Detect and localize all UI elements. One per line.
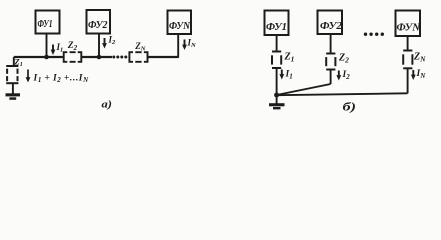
svg-text:I1: I1 [56, 42, 64, 54]
current arrow I1 (circuit b) [279, 70, 284, 80]
svg-text:Z2: Z2 [338, 53, 349, 65]
functional unit box FU2 (circuit a) [87, 10, 111, 34]
wire: FUN drop to ZN (circuit b) [407, 36, 409, 50]
svg-text:ФУN: ФУN [397, 22, 422, 34]
node: common ground junction (circuit b) [274, 93, 279, 98]
wire: Z2 bottom stub (circuit b) [330, 70, 332, 84]
wire: bus left segment (circuit a) [14, 56, 64, 58]
wire: long return link to common node (circuit b) [277, 93, 408, 95]
node: junction FU1/bus [44, 55, 49, 60]
current arrow IN (circuit a) [182, 40, 187, 51]
impedance Z2 box (circuit b, vertical dashed) [326, 54, 335, 70]
svg-text:ZN: ZN [413, 52, 426, 64]
svg-text:Z2: Z2 [67, 41, 78, 52]
wire: drop from FUN to bus (circuit a) [177, 34, 179, 58]
wire: drop from FU1 to bus (circuit a) [46, 34, 48, 58]
svg-text:IN: IN [187, 38, 197, 50]
current arrow IN (circuit b) [411, 70, 416, 80]
wire: ellipsis dots between FU2 and FUN (circuit b) [364, 33, 384, 36]
current arrow I1 (circuit a) [51, 45, 56, 56]
wire: Z1 bottom to ground (circuit a) [12, 83, 14, 94]
impedance ZN box (circuit b, vertical dashed) [403, 51, 412, 69]
svg-text:ZN: ZN [134, 41, 146, 53]
impedance Z1 box (circuit b, vertical dashed) [272, 52, 281, 69]
svg-text:Z1: Z1 [284, 52, 295, 64]
svg-text:ФУ2: ФУ2 [320, 21, 343, 32]
current arrow I2 (circuit b) [336, 71, 341, 81]
wire: bus between Z2 and FU2 drop (circuit a) [81, 56, 112, 58]
current arrow I2 (circuit a) [102, 38, 107, 49]
svg-text:б): б) [343, 102, 357, 114]
svg-text:IN: IN [416, 69, 427, 80]
wire: FU2 drop to Z2 (circuit b) [330, 34, 332, 53]
impedance Z2 box (circuit a, inline dashed) [64, 52, 82, 62]
wire: bus right segment (circuit a) [148, 56, 179, 58]
functional unit box FU1 (circuit a) [36, 11, 60, 34]
svg-text:I2: I2 [342, 70, 351, 81]
svg-text:а): а) [102, 99, 113, 111]
functional unit box FUN (circuit a) [168, 11, 192, 35]
impedance ZN box (circuit a, inline dashed) [129, 52, 147, 62]
current arrow for sum label (circuit a) [26, 70, 31, 83]
wire: ZN bottom down (circuit b) [407, 69, 409, 94]
wire: slanted link Z2 to common node (circuit b) [277, 84, 331, 95]
impedance Z1 box (circuit a, vertical dashed) [6, 66, 18, 83]
wire: ellipsis dots in bus (circuit a) [112, 56, 127, 59]
wire: drop from FU2 to bus (circuit a) [98, 34, 100, 58]
wire: left branch down to Z1 (circuit a) [13, 57, 15, 66]
svg-text:I2: I2 [108, 35, 117, 47]
svg-text:ФУ2: ФУ2 [88, 20, 108, 31]
ground (circuit b) [269, 95, 285, 109]
svg-text:ФУN: ФУN [169, 21, 190, 32]
svg-text:Z1: Z1 [14, 57, 23, 69]
svg-text:I1 + I2 +...IN: I1 + I2 +...IN [33, 74, 90, 85]
svg-text:ФУ1: ФУ1 [38, 19, 53, 30]
svg-text:I1: I1 [285, 70, 293, 81]
wire: Z1 bottom to common node (circuit b) [276, 69, 278, 96]
functional unit box FU2 (circuit b) [318, 11, 343, 35]
wire: FU1 drop to Z1 (circuit b) [276, 35, 278, 51]
node: junction FU2/bus [97, 55, 102, 60]
functional unit box FU1 (circuit b) [265, 11, 289, 36]
ground (circuit a) [6, 93, 21, 100]
svg-text:ФУ1: ФУ1 [266, 22, 287, 33]
functional unit box FUN (circuit b) [396, 11, 421, 37]
